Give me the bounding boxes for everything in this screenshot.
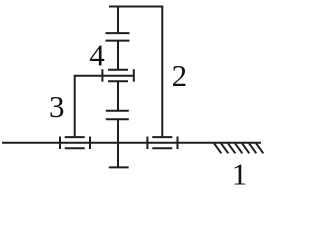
link 3 carrier arm (L shape): [75, 76, 134, 137]
wire main shaft axis line: [2, 142, 261, 144]
ground fixed-frame hatching on shaft 1: [214, 143, 263, 153]
gear mesh top (gear pair 4-2) capacitor bars: [106, 32, 130, 34]
bottom T bar of central gear shaft: [109, 166, 129, 168]
wire link 2 vertical arm: [161, 7, 163, 138]
gear 3 symbol on main shaft: mesh bars: [65, 136, 85, 138]
wire central gear-shaft 4 vertical segments: [117, 7, 119, 34]
svg-text:3: 3: [49, 89, 65, 124]
svg-text:2: 2: [172, 58, 188, 93]
svg-text:4: 4: [89, 38, 105, 73]
gear 3 symbol on main shaft: side ticks: [59, 137, 61, 150]
gear 2 symbol on main shaft: side ticks: [146, 137, 148, 150]
gear mesh middle capacitor bars: [106, 110, 129, 112]
wire top horizontal link of ring gear 2: [109, 6, 163, 8]
svg-text:1: 1: [232, 157, 248, 189]
gear 4 on carrier axis: side ticks: [101, 69, 103, 82]
gear 4 on carrier axis: mesh bars: [108, 69, 128, 71]
gear 2 symbol on main shaft: mesh bars: [152, 136, 172, 138]
